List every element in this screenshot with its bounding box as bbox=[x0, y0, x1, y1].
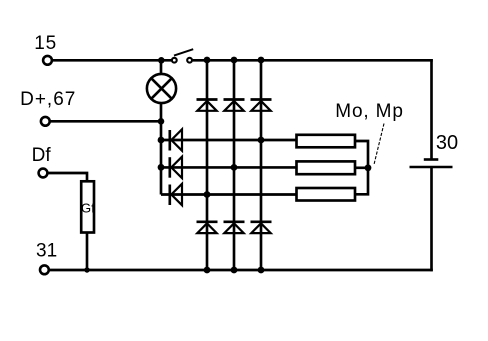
junction node row1 / leg3 bbox=[258, 137, 265, 144]
positive diode leg2 bbox=[224, 100, 245, 111]
wire ground rail 31 bbox=[49, 269, 433, 272]
svg-text:Mo, Mp: Mo, Mp bbox=[335, 101, 403, 122]
stator winding resistor row2 bbox=[297, 161, 356, 174]
junction node at 15/lamp bbox=[158, 57, 165, 64]
junction node row2 left bbox=[158, 164, 165, 171]
svg-text:30: 30 bbox=[436, 132, 458, 154]
stator winding resistor row1 bbox=[297, 135, 356, 148]
wire from switch to top-right corner bbox=[193, 59, 433, 62]
svg-text:Df: Df bbox=[32, 145, 52, 166]
junction node star point bbox=[365, 164, 372, 171]
junction node ground leg1 bbox=[204, 267, 211, 274]
rectifier leg 3 vertical wire bbox=[260, 60, 263, 270]
wire battery top bbox=[430, 59, 433, 160]
junction node Gf / ground bbox=[84, 267, 89, 272]
exciter diode row3 bbox=[170, 184, 182, 205]
junction node top leg2 bbox=[231, 57, 238, 64]
rectifier leg 1 vertical wire bbox=[206, 60, 209, 270]
switch S contact right bbox=[187, 58, 192, 63]
negative diode leg2 bbox=[224, 222, 245, 233]
exciter diode row2 bbox=[170, 157, 182, 178]
negative diode leg3 bbox=[251, 222, 272, 233]
battery plate positive bbox=[424, 158, 439, 161]
field winding resistor Gf bbox=[81, 181, 94, 232]
exciter diode row1 bbox=[170, 129, 182, 150]
wire star point row2 bbox=[355, 166, 368, 169]
terminal circle D+,67 bbox=[41, 117, 50, 126]
junction node top leg1 bbox=[204, 57, 211, 64]
junction node row3 / leg1 bbox=[204, 191, 211, 198]
switch S contact left bbox=[172, 58, 177, 63]
pointer line Mo,Mp bbox=[374, 124, 384, 165]
indicator lamp H bbox=[147, 74, 176, 103]
rectifier leg 2 vertical wire bbox=[233, 60, 236, 270]
junction node top leg3 bbox=[258, 57, 265, 64]
svg-text:Gf: Gf bbox=[81, 201, 95, 216]
svg-text:31: 31 bbox=[36, 240, 57, 261]
junction node ground leg3 bbox=[258, 267, 265, 274]
junction node ground leg2 bbox=[231, 267, 238, 274]
wire from terminal Df bbox=[48, 173, 87, 182]
wire star point bbox=[355, 141, 368, 194]
wire phase row 1 bbox=[161, 139, 297, 142]
wire from terminal 15 to switch bbox=[52, 59, 171, 62]
svg-text:D+,67: D+,67 bbox=[20, 89, 76, 110]
terminal circle Df bbox=[39, 169, 48, 178]
wire field winding to ground bbox=[86, 232, 89, 270]
stator winding resistor row3 bbox=[297, 188, 356, 201]
terminal circle 15 bbox=[43, 56, 52, 65]
wire from terminal D+,67 bbox=[50, 120, 161, 123]
svg-text:15: 15 bbox=[34, 33, 57, 54]
wire phase row 3 bbox=[161, 193, 297, 196]
switch S lever bbox=[174, 49, 193, 55]
battery plate negative bbox=[410, 166, 453, 169]
positive diode leg1 bbox=[197, 100, 218, 111]
wire lamp vertical D+ branch bbox=[160, 60, 163, 195]
terminal circle 31 bbox=[40, 265, 49, 274]
junction node D+ / lamp bbox=[158, 118, 165, 125]
wire battery bottom bbox=[430, 167, 433, 271]
junction node row2 / leg2 bbox=[231, 164, 238, 171]
junction node row1 left bbox=[158, 137, 165, 144]
wire phase row 2 bbox=[161, 166, 297, 169]
negative diode leg1 bbox=[197, 222, 218, 233]
positive diode leg3 bbox=[251, 100, 272, 111]
